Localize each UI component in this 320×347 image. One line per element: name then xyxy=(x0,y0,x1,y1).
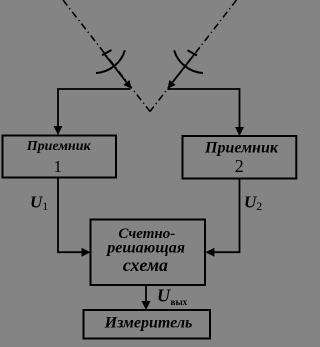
svg-text:Приемник: Приемник xyxy=(204,140,279,157)
wire: antenna A2 feed line xyxy=(173,54,196,83)
antenna A2 feed tick xyxy=(188,50,198,55)
wire: computer output down to meter xyxy=(145,285,147,302)
block: meter box xyxy=(84,310,211,339)
arrowhead into meter xyxy=(142,301,151,310)
svg-text:схема: схема xyxy=(123,255,168,275)
wire: receiver 2 output to computer right input xyxy=(213,179,240,252)
svg-text:Измеритель: Измеритель xyxy=(104,315,193,332)
arrowhead into computer right side xyxy=(205,248,214,257)
svg-text:Приемник: Приемник xyxy=(26,139,92,154)
block: computing unit box xyxy=(91,220,206,286)
wire: left target direction dash-dot line xyxy=(63,0,150,112)
svg-text:1: 1 xyxy=(54,157,62,176)
svg-text:2: 2 xyxy=(235,156,244,176)
svg-text:U: U xyxy=(157,286,171,306)
arrowhead into receiver 2 xyxy=(235,127,244,136)
arrowhead from antenna A2 into junction xyxy=(168,80,176,89)
arrowhead from antenna A1 into junction xyxy=(123,80,131,89)
wire: junction 1 to receiver 1 input xyxy=(58,89,131,127)
antenna A2 arc reflector xyxy=(174,50,203,73)
wire: receiver 1 output to computer left input xyxy=(58,178,83,252)
antenna A1 feed tick xyxy=(102,50,112,55)
wire: right target direction dash-dot line xyxy=(150,0,237,112)
block: receiver 2 box xyxy=(183,136,297,179)
antenna A1 arc reflector xyxy=(96,50,125,73)
wire: junction 2 to receiver 2 input xyxy=(168,89,240,128)
wire: antenna A1 feed line xyxy=(104,54,127,83)
svg-text:вых: вых xyxy=(171,297,188,307)
arrowhead into computer left side xyxy=(82,248,91,257)
svg-text:решающая: решающая xyxy=(105,239,185,256)
block: receiver 1 box xyxy=(3,136,117,178)
arrowhead into receiver 1 xyxy=(54,126,63,135)
